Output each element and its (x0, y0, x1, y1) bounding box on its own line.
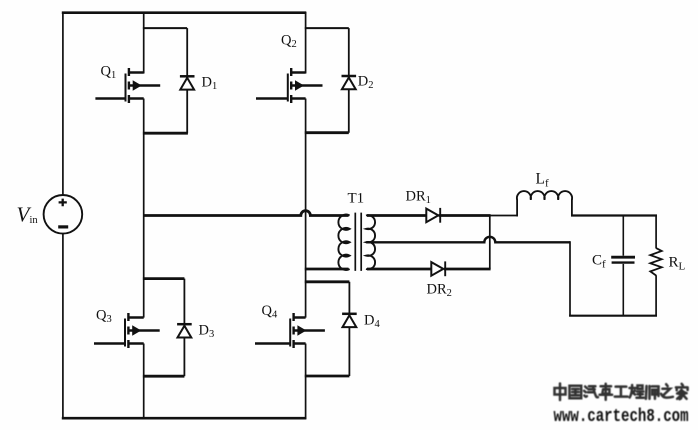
svg-text:DR2: DR2 (427, 282, 452, 300)
汽 (584, 386, 598, 397)
transformer T1 core (355, 213, 361, 271)
wire right stem middle (Q2 source to Q4 drain) (305, 99, 307, 318)
wire DR1 cathode to junction (439, 214, 491, 217)
wire junction to inductor (489, 215, 517, 217)
transistor Q2 (288, 68, 323, 103)
wire D2 bottom branch (305, 131, 349, 134)
svg-text:RL: RL (669, 254, 686, 272)
wire Q3 gate lead (94, 342, 125, 345)
svg-text:D1: D1 (202, 74, 218, 92)
svg-text:Q4: Q4 (262, 303, 278, 321)
transistor Q4 (290, 313, 325, 348)
wire center tap return (hop over join vertical) (366, 237, 570, 243)
svg-text:www.cartech8.com: www.cartech8.com (554, 407, 689, 427)
transformer T1 secondary winding (366, 215, 375, 269)
wire Q1 gate lead (95, 97, 125, 100)
wire right stem upper (top rail to Q2 drain) (305, 12, 307, 74)
inductor Lf (517, 191, 572, 216)
工 (615, 387, 628, 397)
resistor RL (650, 215, 661, 317)
transistor Q3 (125, 313, 160, 348)
wire D3 bottom branch (143, 375, 185, 378)
wire top rail (62, 11, 306, 14)
diode DR2 (431, 261, 445, 276)
wire right stem lower (Q4 source to bottom rail) (305, 344, 307, 420)
diode D3 (177, 279, 192, 377)
svg-text:Lf: Lf (536, 170, 549, 189)
wire DR2 cathode to junction (444, 268, 491, 271)
wire D2 top branch (305, 27, 349, 29)
家 (676, 384, 688, 399)
diode D2 (342, 28, 357, 133)
wire D3 top branch (143, 277, 185, 280)
Vin minus terminal mark (58, 225, 68, 228)
wire D1 top branch (143, 27, 187, 29)
wire bottom rail (62, 417, 306, 420)
之 (661, 384, 673, 397)
svg-text:in: in (30, 215, 39, 226)
wire bridge midpoint to transformer primary top (hop over right stem) (144, 211, 349, 216)
wire left stem upper (top rail to Q1 drain) (143, 12, 145, 74)
师 (646, 386, 659, 399)
wire D1 bottom branch (143, 132, 188, 135)
svg-text:D3: D3 (199, 322, 215, 340)
wire D4 bottom branch (305, 375, 350, 378)
wire secondary bottom to DR2 (367, 268, 431, 271)
diode D1 (180, 28, 195, 133)
wire left stem middle (Q1 source to Q3 drain) (143, 99, 145, 318)
程 (630, 385, 644, 398)
Vin plus terminal mark (59, 199, 67, 207)
wire rectifier output join vertical (489, 216, 491, 270)
wire return drop (569, 241, 571, 316)
transistor Q1 (126, 68, 161, 103)
watermark chinese text 中国汽车工程师之家 (hand-drawn strokes) (555, 384, 688, 401)
wire Q2 gate lead (256, 97, 288, 100)
中 (555, 384, 566, 401)
svg-text:D4: D4 (364, 313, 380, 331)
车 (600, 384, 613, 400)
svg-text:D2: D2 (358, 74, 374, 92)
wire inductor to output top (571, 214, 657, 216)
国 (570, 386, 582, 398)
voltage source Vin circle (44, 195, 83, 234)
wire left stem lower (Q3 source to bottom rail) (143, 344, 145, 420)
capacitor Cf (611, 215, 635, 317)
diode D4 (342, 282, 357, 376)
svg-text:DR1: DR1 (406, 189, 431, 207)
wire output bottom (569, 315, 657, 317)
svg-text:Q2: Q2 (281, 33, 297, 51)
svg-text:Cf: Cf (592, 253, 606, 271)
svg-text:Q3: Q3 (96, 308, 112, 326)
wire Q4 gate lead (255, 342, 290, 345)
svg-text:T1: T1 (348, 190, 365, 206)
wire D4 top branch (305, 280, 350, 283)
wire secondary top to DR1 (367, 214, 426, 217)
wire transformer primary bottom to right stem (305, 268, 349, 271)
svg-text:Q1: Q1 (101, 64, 117, 82)
transformer T1 primary winding (338, 215, 349, 270)
diode DR1 (426, 208, 440, 223)
wire left rail lower segment (62, 233, 64, 419)
wire left rail upper segment (62, 12, 64, 195)
